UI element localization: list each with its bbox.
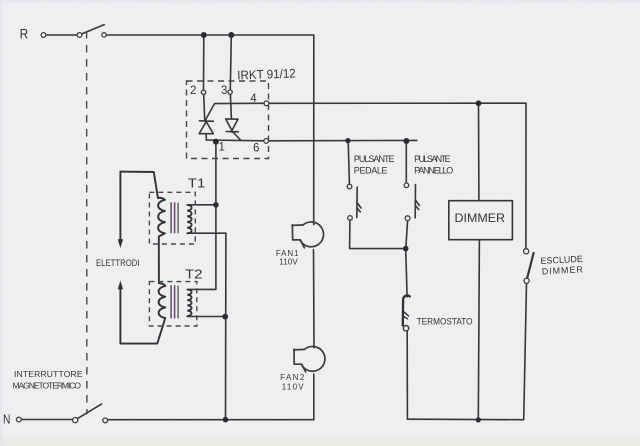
svg-text:PANNELLO: PANNELLO	[414, 166, 453, 176]
svg-text:T1: T1	[188, 176, 206, 191]
svg-text:FAN2: FAN2	[280, 373, 305, 382]
svg-text:MAGNETOTERMICO: MAGNETOTERMICO	[13, 381, 82, 391]
svg-text:PULSANTE: PULSANTE	[354, 154, 395, 164]
svg-text:110V: 110V	[279, 257, 298, 266]
svg-text:IRKT 91/12: IRKT 91/12	[237, 66, 296, 82]
svg-text:6: 6	[253, 142, 259, 154]
svg-text:3: 3	[221, 85, 227, 97]
svg-text:4: 4	[250, 93, 257, 105]
svg-text:N: N	[3, 411, 10, 426]
svg-text:2: 2	[190, 85, 196, 97]
svg-text:1: 1	[219, 141, 225, 153]
svg-text:ELETTRODI: ELETTRODI	[96, 258, 140, 269]
svg-text:110V: 110V	[282, 382, 304, 391]
svg-text:INTERRUTTORE: INTERRUTTORE	[14, 369, 83, 379]
svg-text:T2: T2	[185, 266, 203, 281]
svg-text:DIMMER: DIMMER	[455, 211, 506, 225]
svg-text:PEDALE: PEDALE	[354, 166, 388, 176]
svg-text:PULSANTE: PULSANTE	[414, 154, 450, 164]
svg-text:R: R	[20, 25, 29, 41]
svg-text:TERMOSTATO: TERMOSTATO	[417, 317, 473, 327]
